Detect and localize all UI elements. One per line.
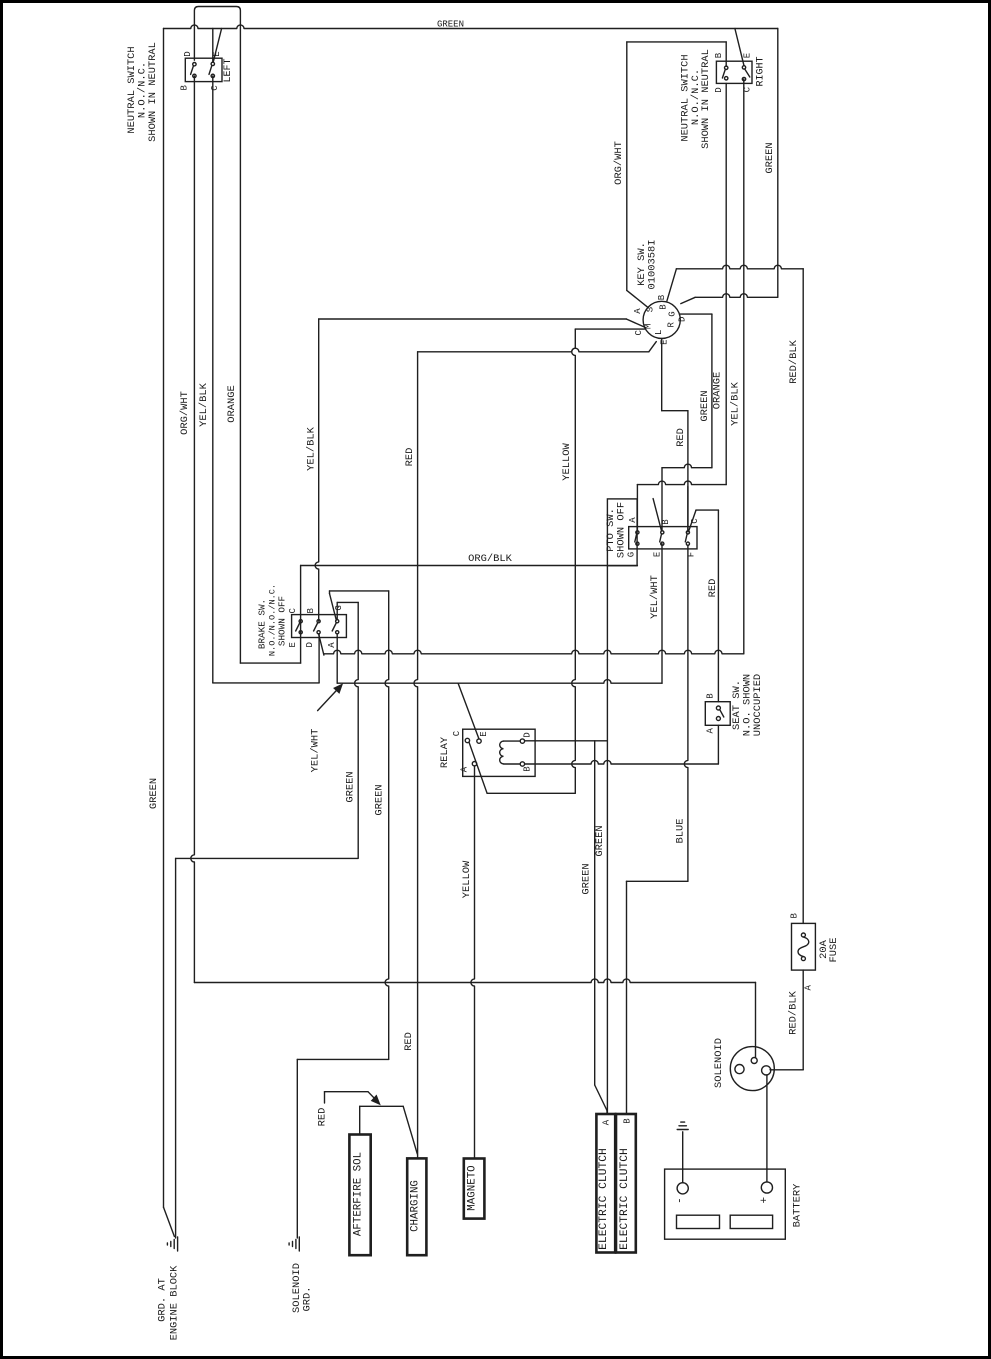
svg-text:GRD. AT: GRD. AT bbox=[157, 1278, 169, 1322]
svg-text:GREEN: GREEN bbox=[345, 771, 357, 802]
solenoid grd symbol bbox=[298, 1237, 300, 1251]
wire afterfire feed bbox=[359, 1106, 361, 1134]
brake pin G bbox=[336, 620, 339, 623]
right NS lever E-C bbox=[745, 69, 750, 77]
svg-text:A: A bbox=[327, 642, 337, 648]
brake pin E bbox=[299, 631, 302, 634]
right NS pin B bbox=[725, 66, 728, 69]
svg-text:+: + bbox=[759, 1197, 771, 1204]
wire RED to charging bbox=[417, 983, 419, 1159]
svg-text:YELLOW: YELLOW bbox=[461, 860, 473, 898]
svg-text:MAGNETO: MAGNETO bbox=[467, 1165, 479, 1210]
svg-text:C: C bbox=[452, 730, 462, 736]
wire row to engine ground bbox=[176, 857, 358, 859]
svg-text:A: A bbox=[706, 728, 716, 734]
wire GREEN left long bbox=[163, 29, 165, 1208]
svg-text:RIGHT: RIGHT bbox=[756, 56, 767, 86]
PTO lever F bbox=[685, 534, 687, 542]
wire row to solenoid ground bbox=[297, 1058, 388, 1060]
PTO pin F bbox=[686, 542, 689, 545]
svg-text:ORG/WHT: ORG/WHT bbox=[179, 391, 191, 435]
svg-text:ORG/WHT: ORG/WHT bbox=[613, 141, 625, 185]
PTO pin B bbox=[661, 531, 664, 534]
svg-text:GREEN: GREEN bbox=[437, 20, 464, 30]
wire RED key-E to PTO C bbox=[687, 487, 689, 531]
fuse box bbox=[792, 923, 816, 970]
electric clutch box B bbox=[616, 1114, 636, 1253]
PTO lever E bbox=[660, 534, 662, 542]
wire key A (ORG/WHT) bbox=[627, 290, 649, 307]
svg-text:E: E bbox=[288, 642, 298, 647]
svg-text:ELECTRIC CLUTCH: ELECTRIC CLUTCH bbox=[598, 1148, 610, 1250]
wire relay lever row bbox=[487, 792, 575, 794]
wire ORANGE right down bbox=[725, 83, 727, 484]
right NS lever B-D bbox=[722, 70, 725, 78]
PTO switch box bbox=[629, 527, 697, 549]
solenoid left pin bbox=[735, 1065, 744, 1074]
svg-text:B: B bbox=[523, 766, 533, 772]
svg-text:ORANGE: ORANGE bbox=[226, 385, 238, 422]
brake lever B bbox=[314, 623, 318, 631]
solenoid right pin bbox=[762, 1066, 771, 1075]
svg-text:ELECTRIC CLUTCH: ELECTRIC CLUTCH bbox=[619, 1148, 631, 1250]
wire key M row (YEL/BLK) bbox=[319, 318, 627, 320]
right NS pin E bbox=[742, 66, 745, 69]
fuse pin B bbox=[801, 933, 805, 937]
fuse pin A bbox=[801, 957, 805, 961]
svg-text:SHOWN IN NEUTRAL: SHOWN IN NEUTRAL bbox=[147, 42, 159, 142]
svg-text:E: E bbox=[212, 51, 222, 56]
wire row brake to right NS C bbox=[324, 650, 744, 654]
wire brake G stub loop bbox=[336, 602, 338, 619]
relay pin E bbox=[477, 739, 481, 743]
svg-text:D: D bbox=[678, 317, 688, 322]
svg-text:E: E bbox=[660, 339, 670, 344]
brake lever D extension bbox=[319, 634, 324, 655]
svg-text:G: G bbox=[668, 311, 678, 316]
seat pin A bbox=[716, 717, 720, 721]
wire ORG/WHT left (B pin down) bbox=[191, 76, 195, 983]
svg-text:D: D bbox=[183, 51, 193, 56]
svg-text:GREEN: GREEN bbox=[148, 778, 160, 809]
wire YELLOW key-C down bbox=[572, 329, 576, 793]
wire battery - to ground bbox=[682, 1132, 684, 1183]
svg-text:RED: RED bbox=[403, 1032, 415, 1051]
wire solenoid top feed bbox=[755, 983, 757, 1058]
svg-text:E: E bbox=[653, 552, 663, 557]
wire key G row (to green tab) bbox=[681, 297, 695, 303]
svg-text:RED/BLK: RED/BLK bbox=[788, 990, 800, 1034]
wire solenoid grd drop bbox=[296, 1059, 298, 1238]
svg-text:SOLENOID: SOLENOID bbox=[713, 1038, 725, 1088]
PTO text loop rect bbox=[607, 499, 637, 566]
left NS pin C bbox=[211, 74, 214, 77]
svg-text:B: B bbox=[659, 304, 669, 310]
svg-text:A: A bbox=[633, 308, 643, 314]
wire RED/BLK fuse to solenoid bbox=[802, 970, 804, 1070]
PTO pin A bbox=[636, 531, 639, 534]
svg-text:GREEN: GREEN bbox=[374, 784, 386, 815]
svg-text:RELAY: RELAY bbox=[439, 736, 451, 768]
svg-text:BATTERY: BATTERY bbox=[792, 1183, 804, 1227]
wire seat A down bbox=[717, 725, 719, 764]
brake pin D bbox=[317, 631, 320, 634]
svg-text:B: B bbox=[180, 85, 190, 91]
svg-text:0100358I: 0100358I bbox=[647, 240, 659, 290]
svg-text:ORANGE: ORANGE bbox=[712, 372, 724, 409]
wire RED/BLK vertical bbox=[802, 269, 804, 924]
charging box bbox=[407, 1158, 426, 1255]
wire ground drop bbox=[175, 858, 177, 1238]
wire BLUE to clutch B bbox=[626, 881, 628, 1114]
svg-text:RED: RED bbox=[317, 1108, 329, 1127]
svg-text:D: D bbox=[714, 87, 724, 92]
svg-text:UNOCCUPIED: UNOCCUPIED bbox=[752, 674, 764, 736]
wire relay D row bbox=[525, 740, 607, 742]
RED leader arrow bbox=[324, 1092, 326, 1103]
left NS lever E-C bbox=[209, 66, 212, 75]
relay lever C-A bbox=[469, 742, 487, 793]
wire YEL/BLK right down bbox=[743, 79, 745, 654]
solenoid circle bbox=[730, 1047, 774, 1091]
right neutral switch tab wire (green) bbox=[777, 29, 779, 298]
PTO lever B long bbox=[653, 499, 661, 531]
svg-text:C: C bbox=[288, 608, 298, 614]
brake lever G bbox=[332, 623, 336, 631]
left NS pin E bbox=[211, 62, 214, 65]
svg-text:E: E bbox=[743, 53, 753, 58]
fuse element bbox=[798, 937, 809, 957]
svg-text:YEL/WHT: YEL/WHT bbox=[649, 575, 661, 619]
svg-text:LEFT: LEFT bbox=[223, 58, 234, 82]
svg-text:AFTERFIRE SOL: AFTERFIRE SOL bbox=[353, 1152, 365, 1236]
wire PTO C stub to seat B bbox=[689, 510, 696, 530]
battery cell 2 bbox=[730, 1215, 772, 1228]
svg-text:C: C bbox=[634, 330, 644, 336]
wire YEL/WHT row left (brake D to left C) bbox=[213, 682, 319, 684]
svg-text:RED: RED bbox=[404, 448, 416, 467]
svg-text:GREEN: GREEN bbox=[581, 863, 593, 894]
YEL/WHT arrow leader bbox=[318, 687, 340, 711]
seat lever bbox=[720, 710, 724, 717]
seat switch box bbox=[705, 702, 730, 726]
svg-text:B: B bbox=[706, 693, 716, 699]
relay pin D bbox=[520, 739, 524, 743]
seat pin B bbox=[716, 706, 720, 710]
electric clutch box A bbox=[596, 1114, 615, 1253]
svg-text:B: B bbox=[714, 52, 724, 58]
wire GREEN2 (textbox to clutch A) bbox=[606, 566, 608, 1114]
svg-text:RED/BLK: RED/BLK bbox=[788, 339, 800, 383]
svg-text:YEL/BLK: YEL/BLK bbox=[730, 381, 742, 425]
left NS pin B bbox=[193, 74, 196, 77]
wire ORG/BLK row right part bbox=[607, 565, 637, 567]
left NS pin D bbox=[193, 62, 196, 65]
svg-text:GREEN: GREEN bbox=[594, 825, 606, 856]
svg-text:G: G bbox=[334, 605, 344, 610]
svg-text:YEL/BLK: YEL/BLK bbox=[198, 382, 210, 426]
svg-text:E: E bbox=[479, 731, 489, 736]
svg-text:SHOWN IN NEUTRAL: SHOWN IN NEUTRAL bbox=[700, 49, 712, 149]
wire GREEN diagonal to right switch E bbox=[735, 29, 744, 66]
svg-text:C: C bbox=[210, 85, 220, 91]
svg-text:BRAKE SW.: BRAKE SW. bbox=[257, 599, 268, 649]
battery ground symbol bbox=[677, 1129, 688, 1131]
svg-text:D: D bbox=[523, 732, 533, 737]
relay box bbox=[463, 729, 535, 776]
ground at engine block symbol bbox=[177, 1237, 179, 1251]
key switch circle bbox=[643, 301, 680, 338]
relay pin B bbox=[520, 762, 524, 766]
brake pin A bbox=[336, 631, 339, 634]
PTO pin C bbox=[686, 531, 689, 534]
magneto box bbox=[464, 1159, 485, 1219]
wire grd branch (358) down bbox=[355, 602, 359, 858]
svg-text:RED: RED bbox=[675, 428, 687, 447]
svg-text:GREEN: GREEN bbox=[764, 142, 776, 173]
wire BLUE jog bbox=[627, 880, 688, 882]
left neutral switch tab wire (D loop) bbox=[194, 7, 240, 664]
wire left switch E vertical bbox=[212, 29, 214, 63]
svg-text:GRD.: GRD. bbox=[302, 1287, 314, 1312]
left NS lever D-B bbox=[191, 66, 194, 74]
afterfire box bbox=[349, 1135, 370, 1256]
svg-text:B: B bbox=[622, 1118, 632, 1124]
battery cell 1 bbox=[677, 1215, 720, 1228]
svg-text:R: R bbox=[667, 322, 677, 328]
battery box bbox=[665, 1169, 786, 1239]
svg-text:M: M bbox=[644, 324, 654, 329]
wire solenoid to battery + bbox=[766, 1075, 768, 1182]
right NS pin D bbox=[725, 77, 728, 80]
wire PTO A up bbox=[636, 485, 638, 531]
relay pin A bbox=[472, 762, 476, 766]
wire key E down (RED) bbox=[661, 338, 663, 410]
relay pin C bbox=[465, 738, 469, 742]
relay coil bbox=[504, 740, 521, 742]
solenoid top pin bbox=[751, 1058, 757, 1064]
brake lever C bbox=[296, 623, 300, 631]
neutral switch LEFT box bbox=[185, 58, 222, 81]
wire ORG/BLK row bbox=[301, 565, 608, 567]
wire key C row (YELLOW) bbox=[575, 328, 644, 330]
svg-text:SHOWN OFF: SHOWN OFF bbox=[616, 502, 628, 558]
svg-text:A: A bbox=[804, 985, 814, 991]
svg-text:ORG/BLK: ORG/BLK bbox=[468, 553, 512, 565]
wire YEL/BLK left (C pin down) bbox=[212, 76, 214, 683]
wire brake G diag up bbox=[330, 594, 337, 621]
wire YELLOW relay A to magneto bbox=[471, 766, 475, 1159]
PTO pin G bbox=[636, 542, 639, 545]
PTO lever A bbox=[635, 534, 637, 542]
wire grd branch (389) down bbox=[385, 591, 389, 1060]
wire key L row (RED) bbox=[418, 348, 649, 352]
svg-text:YEL/WHT: YEL/WHT bbox=[310, 729, 322, 773]
brake pin B bbox=[317, 620, 320, 623]
wire brake G upper jog bbox=[330, 590, 389, 592]
wire YEL/BLK key-M to brake B bbox=[315, 319, 319, 621]
svg-text:S: S bbox=[646, 307, 656, 312]
brake pin C bbox=[299, 620, 302, 623]
svg-text:CHARGING: CHARGING bbox=[409, 1180, 421, 1232]
battery - terminal bbox=[677, 1183, 688, 1194]
wire ORG/WHT row bbox=[194, 979, 755, 983]
svg-text:SHOWN OFF: SHOWN OFF bbox=[277, 596, 288, 646]
right NS pin C bbox=[742, 77, 745, 80]
svg-text:D: D bbox=[305, 642, 315, 647]
svg-text:B: B bbox=[657, 294, 667, 300]
wire GREEN diag to ground bbox=[164, 1207, 175, 1236]
battery + terminal bbox=[761, 1182, 772, 1193]
wire YEL/WHT row right (brake A to PTO E) bbox=[336, 634, 338, 683]
wire key D stub (GREEN) bbox=[680, 313, 712, 315]
svg-text:FUSE: FUSE bbox=[828, 938, 840, 963]
brake switch box bbox=[292, 615, 347, 638]
svg-text:L: L bbox=[654, 330, 664, 335]
svg-text:B: B bbox=[790, 913, 800, 919]
svg-text:G: G bbox=[627, 552, 637, 557]
wire ORANGE elbow to brake text loop bbox=[240, 662, 300, 664]
svg-text:A: A bbox=[460, 766, 470, 772]
svg-text:YEL/BLK: YEL/BLK bbox=[306, 426, 318, 470]
svg-text:YELLOW: YELLOW bbox=[561, 443, 573, 481]
svg-text:RED: RED bbox=[707, 579, 719, 598]
wire GREEN1 relay D to clutch A bbox=[594, 741, 596, 1085]
wire key B row (RED/BLK) bbox=[667, 269, 677, 301]
wire PTO B up bbox=[661, 468, 663, 531]
svg-text:BLUE: BLUE bbox=[675, 819, 687, 844]
PTO pin E bbox=[661, 542, 664, 545]
svg-text:B: B bbox=[306, 608, 316, 614]
svg-text:ENGINE BLOCK: ENGINE BLOCK bbox=[169, 1265, 181, 1341]
wire GREEN top bus bbox=[164, 25, 778, 29]
wire relay B row to seat A bbox=[525, 760, 719, 764]
wire diagonal to relay E bbox=[458, 683, 479, 739]
wire RED key-L down bbox=[414, 352, 418, 983]
svg-text:A: A bbox=[628, 517, 638, 523]
svg-text:GREEN: GREEN bbox=[699, 390, 711, 421]
neutral switch RIGHT box bbox=[716, 61, 752, 83]
wire GREEN diagonal to left switch E bbox=[213, 29, 221, 63]
svg-text:A: A bbox=[602, 1119, 612, 1125]
svg-text:-: - bbox=[675, 1197, 687, 1204]
wire BLUE PTO F down bbox=[684, 545, 688, 881]
